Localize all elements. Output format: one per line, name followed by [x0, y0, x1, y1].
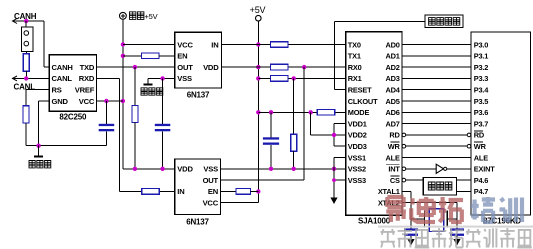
- U1 pin labels left: [52, 63, 73, 106]
- wire VDD rail of U3: [123, 168, 175, 170]
- resistor R5 (U3 LED input): [142, 189, 175, 195]
- diagram block 复位电路 (reset circuit): [425, 15, 463, 27]
- diagram block 译码器 (address decoder): [423, 178, 456, 195]
- wire ALE: [402, 157, 471, 159]
- svg-text:AD3: AD3: [386, 74, 400, 83]
- capacitor C2 (isolation): [155, 78, 171, 168]
- svg-text:P3.4: P3.4: [474, 86, 489, 95]
- svg-text:RD: RD: [389, 131, 400, 140]
- svg-text:AD5: AD5: [386, 97, 400, 106]
- wire AD0-AD7 data bus: [402, 45, 471, 124]
- junction VSS rail R10: [292, 167, 296, 171]
- wire crystal left link: [411, 218, 425, 220]
- svg-text:+5V: +5V: [145, 12, 158, 21]
- svg-text:AD0: AD0: [386, 40, 400, 49]
- wire INT to inverter: [402, 167, 436, 171]
- svg-text:WR: WR: [474, 142, 487, 151]
- junction VSS3: [332, 178, 336, 182]
- svg-text:VCC: VCC: [177, 40, 193, 49]
- junction RX0 riser: [302, 65, 306, 69]
- svg-text:EXINT: EXINT: [474, 165, 495, 174]
- wire CANH pin: [44, 66, 49, 68]
- svg-text:SJA1000: SJA1000: [358, 216, 391, 225]
- wire MODE row: [258, 111, 346, 113]
- svg-text:GND: GND: [52, 97, 69, 106]
- power +5V symbol: [250, 5, 266, 21]
- svg-text:+5V: +5V: [250, 5, 266, 15]
- svg-text:6N137: 6N137: [187, 90, 210, 99]
- wire WR with bubbles: [402, 144, 471, 148]
- wire U2 VDD to RX0 row: [221, 66, 345, 68]
- svg-text:VREF: VREF: [75, 86, 95, 95]
- watermark line 1 (易迪拓培训): [386, 197, 522, 222]
- svg-text:OUT: OUT: [177, 63, 193, 72]
- op-amp inverter U5: [436, 164, 471, 173]
- wire XTAL1: [402, 191, 411, 228]
- svg-text:TXD: TXD: [80, 63, 95, 72]
- junction VDD bracket: [332, 133, 336, 137]
- resistor R4 on TXD pull chain: [132, 67, 138, 169]
- svg-text:ALE: ALE: [474, 153, 488, 162]
- ground 隔离地 (isolated ground) left: [29, 146, 51, 168]
- resistor R6 (TX0 series): [270, 42, 288, 48]
- svg-text:VSS1: VSS1: [348, 153, 366, 162]
- wire U3 EN resistor: [221, 189, 259, 195]
- svg-text:CANH: CANH: [52, 63, 73, 72]
- svg-text:VDD: VDD: [177, 165, 193, 174]
- svg-text:P3.2: P3.2: [474, 63, 488, 72]
- node CANL label and input wire: [13, 76, 50, 92]
- wire VSS rail: [221, 168, 346, 170]
- svg-text:AD2: AD2: [386, 63, 400, 72]
- junction on CANH net: [24, 19, 28, 23]
- resistor R9 (MODE series): [317, 110, 335, 116]
- U4 label SJA1000: [358, 216, 391, 225]
- junction VDD rail from R4: [133, 167, 137, 171]
- resistor R7 (RX0 pull): [270, 64, 288, 70]
- wire reset top run: [334, 20, 425, 22]
- wire U1 VCC rail: [96, 100, 123, 102]
- svg-text:VDD: VDD: [203, 63, 219, 72]
- wire CS to decoder: [402, 178, 423, 182]
- op-amp 6N137 optocoupler U3 box: [175, 159, 221, 215]
- svg-text:VDD1: VDD1: [348, 119, 367, 128]
- resistor RT1 (CAN bus termination 120R): [23, 52, 29, 79]
- op-amp 82C250 transceiver U1 box: [49, 55, 96, 111]
- U6 pin labels: [474, 40, 495, 196]
- op-amp 6N137 optocoupler U2 box: [175, 32, 222, 88]
- svg-text:P3.1: P3.1: [474, 52, 488, 61]
- junction on CANL net: [24, 76, 28, 80]
- capacitor C5: [450, 228, 464, 236]
- U3 label 6N137: [186, 217, 209, 226]
- capacitor C4: [404, 228, 418, 236]
- wire U2 IN to TX0 row: [221, 44, 345, 46]
- svg-text:VDD2: VDD2: [348, 131, 367, 140]
- capacitor C3 (MODE filter): [263, 112, 279, 169]
- svg-text:OUT: OUT: [203, 176, 219, 185]
- svg-text:EN: EN: [177, 52, 187, 61]
- junction MODE cap: [269, 110, 273, 114]
- svg-text:P3.3: P3.3: [474, 74, 488, 83]
- wire U2 VCC: [123, 44, 175, 46]
- svg-text:TX1: TX1: [348, 52, 361, 61]
- resistor R2 (RS slope control): [23, 106, 29, 146]
- ground for C4: [407, 236, 414, 246]
- wire U1 TXD to U2 OUT: [96, 66, 174, 68]
- svg-text:VDD3: VDD3: [348, 142, 367, 151]
- svg-text:RS: RS: [52, 86, 62, 95]
- svg-text:RX0: RX0: [348, 63, 362, 72]
- svg-text:RX1: RX1: [348, 74, 362, 83]
- wire crystal right link: [447, 218, 457, 220]
- U2 pin labels: [177, 40, 219, 83]
- wire U2 EN with resistor R3: [123, 53, 175, 59]
- wire GND pin down: [39, 101, 50, 146]
- wire VSS3 and ground drop: [334, 169, 346, 198]
- U4 pin labels left: [348, 40, 378, 185]
- wire RS to resistor: [26, 90, 49, 106]
- resistor R10 (RX1 divider lower): [291, 78, 297, 168]
- junction VDD rail from C2: [160, 167, 164, 171]
- svg-text:82C250: 82C250: [59, 113, 87, 122]
- svg-text:MODE: MODE: [348, 108, 370, 117]
- junction iso5V at U1 VCC rail: [121, 99, 125, 103]
- junction VSS branch: [160, 76, 164, 80]
- junction VSS rail bracket: [332, 167, 336, 171]
- wire VDD bracket: [334, 124, 346, 147]
- svg-text:VCC: VCC: [79, 97, 95, 106]
- junction VCC cap: [104, 99, 108, 103]
- junction +5V at EN row: [256, 189, 260, 193]
- capacitor C1 (U1 VCC decoupling): [99, 101, 115, 146]
- svg-text:IN: IN: [177, 187, 184, 196]
- svg-text:VSS: VSS: [203, 165, 218, 174]
- wire U2 VSS to isolated ground: [148, 78, 175, 84]
- junction +5V at RX1 row: [256, 76, 260, 80]
- svg-text:P3.0: P3.0: [474, 40, 488, 49]
- svg-text:WR: WR: [388, 142, 401, 151]
- wire U1 RXD down to U3 IN resistor: [96, 78, 141, 191]
- svg-text:AD6: AD6: [386, 108, 400, 117]
- op-amp 87C196KD microcontroller U6 box: [471, 32, 531, 215]
- wire XTAL2: [402, 203, 457, 229]
- svg-text:P3.7: P3.7: [474, 119, 488, 128]
- U1 label 82C250: [59, 113, 87, 122]
- op-amp SJA1000 CAN controller U4 box: [346, 32, 402, 216]
- U1 pin labels right: [75, 63, 95, 106]
- svg-text:IN: IN: [211, 40, 218, 49]
- svg-text:6N137: 6N137: [186, 217, 209, 226]
- wire +5V to U3 VCC: [221, 202, 259, 204]
- svg-text:P3.5: P3.5: [474, 97, 488, 106]
- svg-text:INT: INT: [388, 165, 400, 174]
- svg-text:VCC: VCC: [203, 199, 219, 208]
- svg-text:P4.6: P4.6: [474, 176, 488, 185]
- wire VSS1 bracket: [334, 158, 346, 169]
- ground 隔离地 at U2 VSS: [141, 85, 163, 96]
- wire RX1 row: [258, 77, 346, 79]
- svg-text:AD7: AD7: [386, 119, 400, 128]
- svg-text:RD: RD: [474, 131, 485, 140]
- svg-text:VSS3: VSS3: [348, 176, 366, 185]
- wire ground rail: [26, 145, 106, 147]
- connector J1 (2-pin terminal): [21, 21, 33, 52]
- U4 pin labels right: [378, 40, 401, 207]
- svg-text:EN: EN: [208, 187, 218, 196]
- svg-text:ALE: ALE: [386, 153, 400, 162]
- ground arrow (digital ground): [330, 198, 337, 205]
- junction TXD node: [133, 65, 137, 69]
- svg-text:AD4: AD4: [386, 86, 401, 95]
- node CANH label and input wire: [13, 12, 45, 67]
- svg-text:TX0: TX0: [348, 40, 361, 49]
- svg-text:AD1: AD1: [386, 52, 400, 61]
- junction VSS rail C3: [269, 167, 273, 171]
- wire decoder to P4.7: [457, 190, 472, 192]
- junction iso5V at EN resistor: [121, 54, 125, 58]
- svg-text:CS: CS: [390, 176, 400, 185]
- power 隔离+5V isolated supply symbol: [120, 12, 158, 21]
- wire RX0 riser to U3 OUT: [221, 67, 305, 180]
- svg-text:VSS2: VSS2: [348, 165, 366, 174]
- wire RD with bubbles: [402, 133, 471, 137]
- U6 label 87C196KD: [483, 216, 521, 225]
- svg-text:RESET: RESET: [348, 86, 372, 95]
- svg-text:VSS: VSS: [177, 74, 192, 83]
- junction RX1 divider: [292, 76, 296, 80]
- wire RESET riser: [334, 21, 346, 89]
- junction +5V at MODE row: [256, 110, 260, 114]
- ground for C5: [453, 236, 460, 246]
- svg-text:P4.7: P4.7: [474, 187, 488, 196]
- junction +5V at IN row: [256, 42, 260, 46]
- crystal Y1: [425, 209, 448, 232]
- svg-text:P3.6: P3.6: [474, 108, 488, 117]
- U2 label 6N137: [187, 90, 210, 99]
- watermark line 2 (射频和天线设计专家): [378, 226, 533, 248]
- wire decoder to P4.6: [457, 179, 472, 181]
- resistor R8 (RX1 pull): [270, 76, 288, 82]
- junction GND rail: [36, 144, 40, 148]
- svg-text:RXD: RXD: [79, 74, 95, 83]
- U3 pin labels: [177, 165, 218, 208]
- svg-text:CLKOUT: CLKOUT: [348, 97, 378, 106]
- junction MODE VDD feed: [309, 110, 313, 114]
- junction +5V at VDD row: [256, 65, 260, 69]
- wire +5V vertical rail: [257, 21, 259, 203]
- junction iso5V at VCC of U2: [121, 42, 125, 46]
- svg-text:XTAL1: XTAL1: [378, 187, 400, 196]
- svg-text:CANL: CANL: [52, 74, 73, 83]
- wire isolated +5V vertical: [122, 19, 124, 169]
- wire VDD123 feed: [311, 112, 346, 135]
